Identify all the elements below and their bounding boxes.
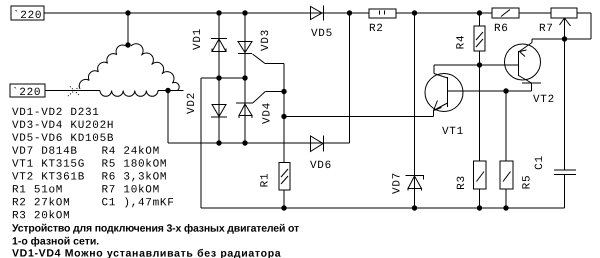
svg-text:C1 ),47mKF: C1 ),47mKF	[101, 197, 174, 209]
svg-text:R4 24kOM: R4 24kOM	[101, 146, 159, 158]
wire R6 to R7	[519, 12, 551, 14]
node top rail junctions	[216, 10, 221, 15]
svg-text:VD2: VD2	[186, 92, 198, 114]
svg-text:R4: R4	[456, 35, 468, 50]
wire delta top vertex to rail	[127, 13, 129, 45]
diode VD1	[211, 13, 227, 78]
svg-text:R6: R6	[494, 23, 509, 35]
wire top rail N1	[44, 12, 369, 14]
svg-text:VD4: VD4	[262, 102, 274, 124]
zener VD7	[406, 13, 424, 208]
transistor VT2	[505, 39, 542, 91]
resistor R3	[474, 161, 487, 208]
wire VT2 emitter to R7 wiper	[532, 38, 591, 40]
svg-text:VD1-VD2 D231: VD1-VD2 D231	[12, 107, 100, 119]
svg-text:Устройство для подключения 3-х: Устройство для подключения 3-х фазных дв…	[12, 223, 299, 235]
svg-text:VD7: VD7	[392, 172, 404, 194]
wire winding bottom-right	[158, 90, 184, 92]
wire mid rail to bottom rail	[200, 78, 202, 208]
node delta top	[125, 10, 130, 15]
wire mid rail	[201, 77, 245, 79]
svg-text:VD3-VD4 KU202H: VD3-VD4 KU202H	[12, 120, 114, 132]
diode VD5	[311, 6, 324, 21]
thyristor VD3	[238, 13, 252, 78]
diode VD6	[311, 136, 324, 152]
wire N3 rail	[168, 142, 350, 144]
svg-text:VD7 D814B: VD7 D814B	[12, 146, 78, 158]
svg-text:R2: R2	[369, 23, 384, 35]
motor winding left	[79, 45, 126, 89]
svg-text:R3 20kOM: R3 20kOM	[12, 210, 70, 222]
svg-text:`220: `220	[12, 87, 41, 99]
transistor VT1	[425, 65, 463, 117]
svg-text:VT1 KT315G: VT1 KT315G	[12, 159, 85, 171]
svg-text:R1 51oM: R1 51oM	[12, 184, 63, 196]
svg-text:R7 10kOM: R7 10kOM	[101, 184, 159, 196]
svg-text:VT2: VT2	[533, 94, 555, 106]
svg-text:R3: R3	[456, 175, 468, 190]
svg-text:VD5-VD6 KD105B: VD5-VD6 KD105B	[12, 133, 114, 145]
terminal X2 `220 bottom	[10, 84, 45, 99]
wire vertex C down to N3 rail	[167, 91, 169, 144]
resistor R4	[474, 13, 485, 161]
wire VD4 gate	[253, 92, 265, 103]
svg-text:1-о фазной сети.: 1-о фазной сети.	[12, 236, 99, 248]
node mid rail junctions	[216, 75, 221, 80]
wire VT1 base to VT2 collector	[448, 90, 532, 92]
svg-text:VT1: VT1	[442, 126, 464, 138]
node gate junctions	[281, 89, 286, 94]
wire gate line vertical	[283, 64, 285, 163]
diode VD2	[211, 78, 227, 143]
svg-text:VD1-VD4 Можно устанавливать бе: VD1-VD4 Можно устанавливать без радиатор…	[12, 248, 281, 258]
wire R2 to R6	[396, 12, 492, 14]
motor winding right	[131, 44, 179, 91]
capacitor C1	[554, 39, 576, 208]
wire bottom rail	[201, 207, 565, 209]
wire crossing marks	[68, 86, 80, 96]
svg-text:R2 27kOM: R2 27kOM	[12, 197, 70, 209]
wire VT1 emitter to gates	[284, 116, 434, 118]
wire from X2 to motor winding	[45, 90, 100, 92]
thyristor VD4	[236, 78, 253, 143]
svg-text:VT2 KT361B: VT2 KT361B	[12, 172, 85, 184]
wire N3-VD6 to N2	[349, 13, 351, 143]
motor winding bottom	[100, 91, 158, 97]
potentiometer R7	[551, 8, 591, 39]
resistor R1	[279, 163, 290, 209]
svg-text:VD6: VD6	[310, 160, 332, 172]
terminal X1 `220 top	[11, 6, 44, 22]
resistor R5	[500, 91, 513, 208]
svg-text:R7: R7	[539, 23, 554, 35]
svg-text:R1: R1	[260, 173, 272, 188]
svg-text:R5 180kOM: R5 180kOM	[101, 159, 167, 171]
wire VD3 gate	[253, 54, 266, 64]
svg-text:VD5: VD5	[311, 28, 333, 40]
resistor R6	[492, 8, 519, 18]
svg-text:C1: C1	[534, 155, 546, 170]
wire VD5 to R2	[347, 10, 352, 15]
svg-text:R6 3,3kOM: R6 3,3kOM	[101, 172, 167, 184]
node delta right vertex	[165, 88, 170, 93]
wire VT1 collector to VT2 base	[434, 64, 519, 66]
svg-text:`220: `220	[13, 10, 42, 22]
svg-text:VD3: VD3	[260, 29, 272, 51]
svg-text:VD1: VD1	[192, 28, 204, 50]
resistor R2	[369, 9, 396, 18]
parts list	[12, 107, 175, 222]
svg-text:R5: R5	[522, 175, 534, 190]
